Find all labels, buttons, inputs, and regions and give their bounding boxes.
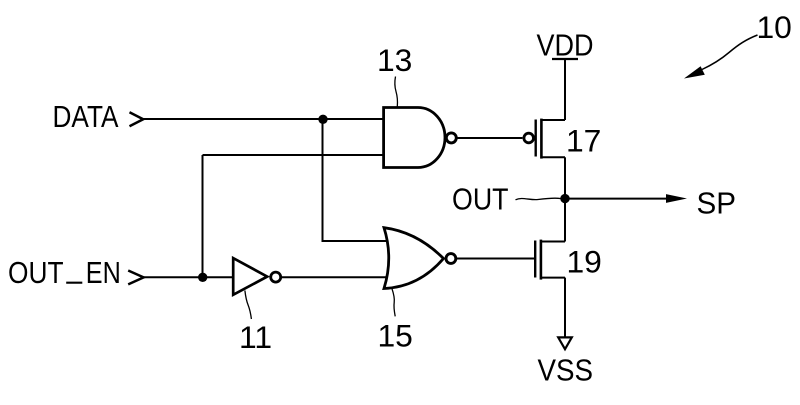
svg-text:10: 10 [757, 9, 792, 45]
svg-text:13: 13 [377, 42, 412, 78]
svg-text:11: 11 [239, 319, 272, 355]
svg-text:VDD: VDD [537, 28, 594, 63]
svg-text:VSS: VSS [538, 353, 594, 388]
svg-text:OUT: OUT [452, 181, 509, 216]
svg-text:19: 19 [567, 244, 602, 280]
svg-text:OUT: OUT [8, 255, 64, 290]
svg-text:17: 17 [566, 122, 601, 158]
svg-text:DATA: DATA [53, 99, 119, 134]
svg-text:SP: SP [697, 185, 737, 220]
svg-text:EN: EN [86, 255, 121, 290]
svg-text:15: 15 [378, 318, 413, 354]
